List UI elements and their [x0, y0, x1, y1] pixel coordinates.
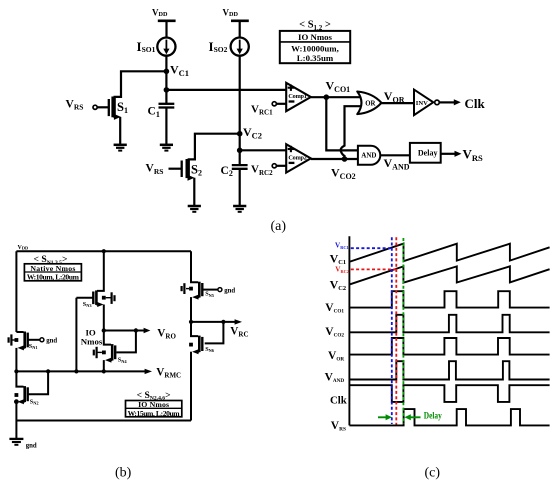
wire VC1 to S1 drain: [114, 71, 167, 97]
svg-text:VOR: VOR: [384, 89, 405, 105]
svg-text:VOR: VOR: [328, 350, 344, 363]
svg-text:VCO2: VCO2: [325, 326, 344, 339]
node SN4 gate tap: [134, 328, 138, 332]
node SN2 source: [14, 399, 19, 404]
transistor SN4: [104, 331, 115, 372]
svg-text:W:10um, L:20um: W:10um, L:20um: [27, 273, 80, 282]
node VRC right: [221, 320, 225, 324]
wire VRC1 to Comp1 minus: [276, 103, 286, 105]
dashed red vertical: [395, 237, 397, 424]
green delay arrow right: [404, 414, 420, 420]
PART C: [325, 236, 550, 480]
wire Comp2 output to AND: [311, 158, 358, 160]
svg-text:VAND: VAND: [384, 156, 410, 172]
svg-text:Clk: Clk: [330, 394, 347, 406]
bulk SN3 to ground: [102, 292, 115, 304]
svg-text:VAND: VAND: [325, 372, 345, 385]
wire ISO2 to VC2: [239, 56, 241, 134]
dashed red horizontal VRC2 level: [351, 268, 396, 270]
terminal VRC2: [272, 164, 276, 168]
svg-text:(c): (c): [425, 465, 441, 480]
svg-text:C2: C2: [221, 165, 233, 178]
wire OR to INV: [381, 102, 414, 104]
axis vertical: [348, 236, 350, 425]
svg-text:VC1: VC1: [170, 63, 189, 79]
wire bottom rail: [16, 420, 191, 422]
waveform VC2 sawtooth: [350, 266, 550, 284]
svg-text:SN4: SN4: [118, 357, 128, 364]
capacitor C1: [159, 104, 175, 145]
waveform VOR: [349, 338, 549, 355]
svg-text:VCO2: VCO2: [331, 165, 356, 181]
transistor SN3: [76, 251, 103, 330]
gate OR: [357, 92, 381, 115]
svg-text:VRS: VRS: [66, 98, 84, 111]
svg-text:VCO1: VCO1: [326, 78, 351, 94]
terminal VRC1: [272, 102, 276, 106]
gate AND: [358, 146, 380, 165]
capacitor C2: [232, 165, 248, 206]
dashed blue horizontal VRC1 level: [351, 247, 392, 249]
svg-text:AND: AND: [361, 152, 376, 160]
inverter INV: [414, 90, 439, 116]
svg-text:SN3: SN3: [83, 301, 93, 308]
svg-text:VDD: VDD: [223, 7, 239, 18]
node at C1 top: [164, 87, 170, 93]
wire OR lower input: [341, 106, 361, 159]
svg-text:VRMC: VRMC: [156, 367, 181, 380]
wire ISO1 to VC1: [165, 56, 167, 72]
wire left vertical to SN1: [15, 251, 17, 332]
comparator U1 Comp1: [286, 83, 311, 111]
svg-text:Clk: Clk: [465, 96, 486, 111]
svg-text:VRO: VRO: [157, 327, 176, 340]
svg-text:VRS: VRS: [463, 146, 484, 163]
node VCO2: [342, 156, 348, 162]
wire VDD1 to ISO1: [165, 21, 167, 38]
svg-text:ISO1: ISO1: [137, 39, 156, 54]
bulk SN4 to ground: [94, 347, 106, 358]
box SN135 parameters: [24, 264, 81, 282]
ground symbol bottom left: [9, 439, 36, 450]
svg-text:VRC1: VRC1: [251, 103, 273, 116]
wire VDD top rail: [16, 250, 191, 252]
svg-text:INV: INV: [416, 100, 428, 107]
transistor SN5: [191, 251, 218, 322]
wire INV to Clk arrow: [439, 101, 454, 103]
bulk SN5 to ground: [182, 283, 193, 294]
node VRO: [102, 328, 106, 332]
svg-text:VDD: VDD: [152, 7, 168, 18]
node VC2: [237, 131, 243, 137]
svg-text:gnd: gnd: [26, 443, 37, 450]
comparator U2 Comp2: [286, 144, 311, 172]
svg-text:SN5: SN5: [205, 291, 215, 298]
wire VCO1 down to AND: [326, 97, 358, 150]
svg-text:Native Nmos: Native Nmos: [30, 264, 75, 273]
wire VRC2 to Comp2 minus: [276, 165, 286, 167]
svg-text:Delay: Delay: [418, 149, 438, 158]
svg-text:(b): (b): [115, 465, 132, 480]
waveform VRS: [349, 409, 549, 425]
svg-text:VC2: VC2: [330, 277, 346, 292]
waveform VCO2: [349, 315, 549, 333]
ground under C2: [233, 206, 246, 212]
dashed green vertical: [402, 238, 404, 424]
node rail SN2 gate: [46, 369, 50, 373]
wire VDD2 to ISO2: [239, 21, 241, 38]
svg-text:S1: S1: [117, 100, 128, 115]
power VDD1 bar: [158, 19, 176, 22]
wire mid rail VRMC: [16, 370, 145, 372]
wire VC1 down to C1: [165, 71, 167, 103]
wire Comp1 output: [311, 96, 361, 98]
waveform Clk: [349, 385, 549, 402]
svg-text:VRC2: VRC2: [335, 266, 349, 274]
wire VRC arrow: [191, 321, 235, 323]
node VC2 lower: [237, 148, 243, 154]
PART A: [66, 7, 486, 234]
svg-text:VRS: VRS: [146, 163, 164, 176]
bulk SN6 square: [189, 343, 193, 347]
ground under S2: [188, 206, 201, 212]
terminal gnd at SN1 gate: [40, 338, 44, 342]
PART B: [9, 245, 249, 480]
wire VC2 to S2 drain: [188, 134, 240, 160]
transistor S2: [169, 159, 195, 205]
svg-text:(a): (a): [271, 219, 287, 234]
wire Delay to VRS arrow: [441, 153, 456, 155]
transistor SN1: [16, 332, 39, 372]
wire AND to Delay: [380, 154, 410, 156]
wire node to Comp2 plus input: [240, 149, 287, 151]
power VDD2 bar: [231, 19, 249, 22]
green delay arrow left: [378, 414, 392, 420]
node VC1: [164, 69, 170, 75]
block Delay: [410, 143, 441, 163]
svg-text:IO Nmos: IO Nmos: [298, 32, 333, 42]
svg-text:Nmos: Nmos: [81, 337, 103, 347]
wire SN3 gate down to rail: [75, 298, 77, 372]
terminal gnd at SN5 gate: [218, 288, 222, 292]
box S12 parameters: [280, 31, 350, 63]
wire SN4 gate: [116, 331, 135, 353]
svg-text:VC2: VC2: [243, 125, 262, 141]
svg-text:Comp1: Comp1: [288, 93, 307, 100]
svg-text:VRC1: VRC1: [335, 242, 349, 250]
wire node to Comp1 plus input: [166, 89, 286, 91]
svg-text:SN1: SN1: [29, 343, 38, 350]
dashed blue vertical: [391, 237, 393, 424]
svg-text:gnd: gnd: [224, 287, 235, 294]
box SN246 parameters: [126, 400, 182, 418]
svg-text:VC1: VC1: [330, 251, 346, 266]
svg-text:VRC2: VRC2: [251, 164, 273, 177]
wire VRO arrow: [104, 330, 145, 332]
waveform VC1 sawtooth: [350, 244, 550, 262]
transistor S1: [93, 97, 121, 144]
svg-text:VRS: VRS: [331, 420, 346, 433]
node on rail at SN3: [102, 249, 106, 253]
svg-text:Comp2: Comp2: [288, 154, 307, 161]
svg-text:S2: S2: [191, 162, 202, 177]
ground under S1: [114, 145, 127, 151]
wire SN6 gate: [205, 322, 224, 344]
svg-text:SN6: SN6: [205, 346, 215, 353]
svg-text:L:0.35um: L:0.35um: [297, 53, 334, 63]
svg-text:Delay: Delay: [424, 410, 442, 421]
svg-text:VRC: VRC: [230, 326, 248, 339]
node VCO1: [324, 94, 330, 100]
bulk SN1 to ground: [9, 334, 19, 345]
transistor SN2: [16, 371, 48, 439]
node VRC left: [189, 320, 193, 324]
svg-text:SN2: SN2: [30, 398, 39, 405]
ground under C1: [160, 145, 173, 151]
node rail SN1: [14, 369, 18, 373]
svg-text:W:15um, L:20um: W:15um, L:20um: [128, 409, 181, 418]
current source ISO1: [157, 38, 175, 56]
svg-text:ISO2: ISO2: [209, 39, 228, 54]
waveform VCO1: [349, 291, 549, 307]
node rail SN4 source: [102, 369, 106, 373]
node rail SN3 gate: [74, 369, 78, 373]
waveform VAND: [349, 361, 549, 379]
bulk SN2 square: [15, 393, 19, 397]
current source ISO2: [231, 38, 249, 56]
svg-text:gnd: gnd: [46, 338, 57, 345]
svg-text:VCO1: VCO1: [325, 302, 344, 315]
transistor SN6: [191, 322, 202, 421]
svg-text:C1: C1: [148, 106, 160, 119]
svg-text:OR: OR: [365, 100, 375, 107]
wire VC2 down to C2: [239, 134, 241, 165]
